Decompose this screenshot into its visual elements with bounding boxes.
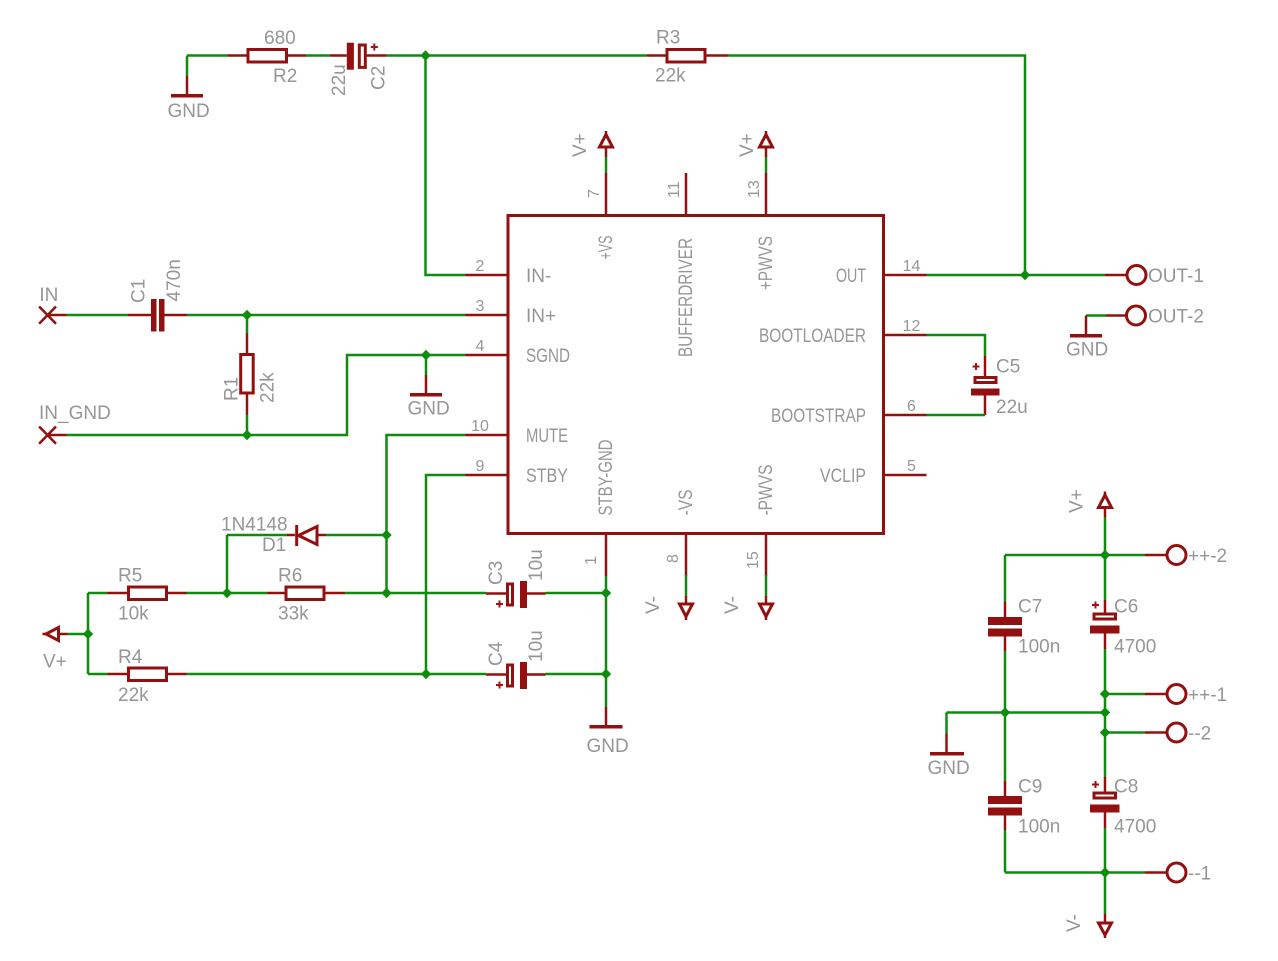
wire mid rail vertical C6-C8 xyxy=(1104,694,1107,733)
capacitor C8 4700 polarized xyxy=(1090,733,1156,873)
svg-text:D1: D1 xyxy=(262,535,286,556)
svg-text:6: 6 xyxy=(907,398,916,415)
supply V+ symbol above pin 7 xyxy=(570,131,613,173)
resistor R2 680 xyxy=(228,28,307,87)
junction pin1-C3 node xyxy=(601,588,611,598)
wire net N$1 top row from GND to R2 xyxy=(187,54,228,57)
svg-text:470n: 470n xyxy=(164,259,185,301)
wire BOOTLOADER pin 12 to C5 xyxy=(927,335,986,356)
wire C1 to pin 3 xyxy=(187,314,466,317)
svg-text:+VS: +VS xyxy=(596,236,617,260)
svg-text:10u: 10u xyxy=(526,549,547,581)
wire C2 to junction xyxy=(387,54,426,57)
svg-text:9: 9 xyxy=(476,458,485,475)
wire C4 to GND node xyxy=(546,673,607,676)
pin 9 STBY stub xyxy=(466,474,507,477)
svg-text:-PWVS: -PWVS xyxy=(756,465,777,516)
svg-text:11: 11 xyxy=(666,181,683,198)
ground GND3 (below C3/C4) xyxy=(587,593,629,757)
capacitor C5 22u polarized xyxy=(971,356,1028,418)
svg-text:1N4148: 1N4148 xyxy=(221,515,288,536)
svg-text:-VS: -VS xyxy=(676,490,697,516)
svg-text:4700: 4700 xyxy=(1114,817,1156,838)
svg-text:++-2: ++-2 xyxy=(1188,546,1227,567)
terminal --2 xyxy=(1105,723,1211,745)
pin 15 -PWVS stub xyxy=(765,535,768,576)
pin 5 VCLIP stub xyxy=(885,474,927,477)
svg-text:STBY-GND: STBY-GND xyxy=(596,440,617,516)
svg-text:22u: 22u xyxy=(329,64,350,96)
svg-text:GND: GND xyxy=(168,101,210,122)
svg-text:22k: 22k xyxy=(655,66,686,87)
junction ++-1 node xyxy=(1100,689,1110,699)
pin 3 IN+ stub xyxy=(466,314,507,317)
junction bottom rail xyxy=(1100,867,1110,877)
svg-text:GND: GND xyxy=(587,736,629,757)
wire junction right to R3 xyxy=(426,54,648,57)
resistor R5 10k xyxy=(88,566,187,625)
resistor R1 22k vertical xyxy=(222,315,279,435)
wire bottom rail xyxy=(1005,713,1145,873)
wire C3 to pin 1 node xyxy=(546,592,607,595)
svg-text:OUT-1: OUT-1 xyxy=(1148,266,1204,287)
junction R6 right at MUTE riser xyxy=(381,588,391,598)
capacitor C9 100n xyxy=(988,777,1060,873)
svg-text:100n: 100n xyxy=(1018,817,1060,838)
wire C5 to BOOTSTRAP pin 6 xyxy=(927,396,986,416)
svg-text:STBY: STBY xyxy=(526,466,568,487)
svg-text:--2: --2 xyxy=(1188,724,1211,745)
svg-text:15: 15 xyxy=(745,551,762,569)
capacitor C1 470n xyxy=(128,259,187,331)
resistor R3 22k xyxy=(647,28,729,87)
ground GND4 (OUT-2) xyxy=(1066,316,1108,361)
svg-text:V-: V- xyxy=(722,596,743,614)
svg-text:MUTE: MUTE xyxy=(526,426,568,447)
terminal ++-1 xyxy=(1105,685,1227,707)
svg-text:R1: R1 xyxy=(222,377,243,401)
svg-text:IN_GND: IN_GND xyxy=(39,403,111,424)
junction STBY riser at R4 row xyxy=(421,669,431,679)
svg-text:100n: 100n xyxy=(1018,637,1060,658)
junction R5-R6 node xyxy=(222,588,232,598)
ground GND1 (top left) xyxy=(168,56,210,123)
junction D1 right at MUTE riser xyxy=(381,530,391,540)
svg-text:C5: C5 xyxy=(996,357,1020,378)
ground GND5 (power) xyxy=(928,713,970,780)
svg-text:680: 680 xyxy=(264,28,296,49)
junction mid rail at C7 xyxy=(1000,707,1010,717)
svg-text:V-: V- xyxy=(643,596,664,614)
svg-text:22k: 22k xyxy=(258,372,279,403)
svg-text:BOOTLOADER: BOOTLOADER xyxy=(759,326,866,347)
supply V+ symbol above pin 13 xyxy=(737,131,773,173)
junction mid rail at C6 column xyxy=(1100,707,1110,717)
svg-text:4: 4 xyxy=(476,338,485,355)
svg-text:C6: C6 xyxy=(1114,597,1138,618)
svg-text:IN-: IN- xyxy=(526,266,551,287)
wire V+ riser R5 to R4 xyxy=(87,593,90,674)
svg-text:22k: 22k xyxy=(118,685,149,706)
pin 2 IN- stub xyxy=(466,274,507,277)
pin 10 MUTE stub xyxy=(466,434,507,437)
svg-text:--1: --1 xyxy=(1188,864,1211,885)
svg-text:V+: V+ xyxy=(43,652,67,673)
pin 14 OUT stub xyxy=(885,274,927,277)
capacitor C7 100n xyxy=(988,555,1060,713)
svg-text:R3: R3 xyxy=(656,28,680,49)
diode D1 1N4148 xyxy=(221,515,387,557)
svg-text:C4: C4 xyxy=(486,641,507,666)
svg-text:R4: R4 xyxy=(118,647,143,668)
terminal --1 xyxy=(1145,863,1211,885)
svg-text:R6: R6 xyxy=(278,566,302,587)
pin 11 BUFFERDRIVER stub xyxy=(685,173,688,214)
svg-text:GND: GND xyxy=(408,399,450,420)
svg-text:V+: V+ xyxy=(570,133,591,157)
svg-text:7: 7 xyxy=(586,189,603,198)
svg-text:C3: C3 xyxy=(486,561,507,585)
svg-text:10u: 10u xyxy=(526,630,547,662)
wire STBY riser xyxy=(426,475,466,674)
svg-text:22u: 22u xyxy=(996,397,1028,418)
terminal OUT-1 xyxy=(1105,266,1204,288)
svg-text:V-: V- xyxy=(1064,914,1085,932)
svg-text:OUT: OUT xyxy=(836,266,866,287)
svg-text:14: 14 xyxy=(903,258,921,275)
pin 1 STBY-GND stub xyxy=(605,535,608,576)
wire mid rail xyxy=(947,711,1106,714)
junction IN+ node at R1 top xyxy=(242,310,252,320)
IC U1 TDA7293 body xyxy=(508,216,884,534)
svg-text:R2: R2 xyxy=(273,66,297,87)
capacitor C4 10u polarized xyxy=(486,630,547,689)
junction OUT feedback node xyxy=(1020,270,1030,280)
supply V+ arrow left xyxy=(43,628,89,673)
terminal OUT-2 xyxy=(1086,306,1204,328)
svg-text:2: 2 xyxy=(476,258,485,275)
resistor R6 33k xyxy=(227,566,345,625)
capacitor C3 10u polarized xyxy=(486,549,547,608)
wire IN to C1 xyxy=(48,314,129,317)
svg-text:GND: GND xyxy=(928,758,970,779)
svg-text:GND: GND xyxy=(1066,340,1108,361)
svg-text:++-1: ++-1 xyxy=(1188,685,1227,706)
svg-text:C7: C7 xyxy=(1018,597,1042,618)
svg-text:R5: R5 xyxy=(118,566,142,587)
wire IN_GND row to SGND riser xyxy=(48,355,466,435)
node IN_GND cross xyxy=(39,427,56,444)
wire R2 to C2 xyxy=(306,54,330,57)
svg-text:+PWVS: +PWVS xyxy=(756,236,777,290)
svg-text:BUFFERDRIVER: BUFFERDRIVER xyxy=(676,238,697,357)
node IN cross xyxy=(39,307,56,324)
svg-text:VCLIP: VCLIP xyxy=(820,466,866,487)
svg-text:BOOTSTRAP: BOOTSTRAP xyxy=(771,406,866,427)
junction --2 node xyxy=(1100,727,1110,737)
svg-text:C8: C8 xyxy=(1114,777,1138,798)
svg-text:C9: C9 xyxy=(1018,777,1042,798)
wire MUTE to divider xyxy=(387,435,466,593)
wire V+ rail row xyxy=(1005,554,1145,557)
junction V+ rail node xyxy=(1100,550,1110,560)
svg-text:IN: IN xyxy=(39,285,58,306)
wire R4 to C4 xyxy=(187,673,487,676)
supply V- symbol below pin 15 xyxy=(722,575,773,620)
wire R6 to C3 xyxy=(345,592,486,595)
ground GND2 (below SGND) xyxy=(408,355,450,420)
wire junction down to pin 2 xyxy=(426,56,466,276)
svg-text:10k: 10k xyxy=(118,604,149,625)
svg-text:OUT-2: OUT-2 xyxy=(1148,307,1204,328)
svg-text:C1: C1 xyxy=(129,279,150,303)
svg-text:3: 3 xyxy=(476,298,485,315)
supply V- symbol power section xyxy=(1064,873,1112,939)
supply V- symbol below pin 8 xyxy=(643,575,693,620)
pin 7 +VS stub xyxy=(605,173,608,214)
svg-text:12: 12 xyxy=(903,318,921,335)
pin 8 -VS stub xyxy=(685,535,688,576)
svg-text:10: 10 xyxy=(471,418,489,435)
junction V+ node xyxy=(83,629,93,639)
junction R1 bottom on IN_GND row xyxy=(242,430,252,440)
svg-text:IN+: IN+ xyxy=(526,306,556,327)
junction SGND node xyxy=(421,350,431,360)
resistor R4 22k xyxy=(88,647,187,706)
svg-text:4700: 4700 xyxy=(1114,637,1156,658)
pin 13 +PWVS stub xyxy=(765,173,768,214)
svg-text:1: 1 xyxy=(583,556,600,565)
svg-text:13: 13 xyxy=(746,180,763,198)
capacitor C2 22u polarized xyxy=(329,43,390,96)
wire pin 1 down xyxy=(605,576,608,593)
svg-text:8: 8 xyxy=(665,554,682,563)
wire R3 to OUT node xyxy=(729,56,1026,276)
svg-text:SGND: SGND xyxy=(526,346,570,367)
pin 4 SGND stub xyxy=(466,354,507,357)
supply V+ symbol power section xyxy=(1067,489,1112,555)
capacitor C6 4700 polarized xyxy=(1090,555,1156,694)
pin 6 BOOTSTRAP stub xyxy=(885,414,927,417)
svg-text:33k: 33k xyxy=(278,604,309,625)
svg-text:V+: V+ xyxy=(737,133,758,157)
wire D1 left drop to R5 node xyxy=(226,535,229,593)
junction C4-GND node xyxy=(601,669,611,679)
junction at C2 output node xyxy=(420,50,430,60)
svg-text:5: 5 xyxy=(907,458,916,475)
wire R5 to R6 xyxy=(187,592,228,595)
svg-text:V+: V+ xyxy=(1067,489,1088,513)
svg-text:C2: C2 xyxy=(369,66,390,90)
wire OUT pin 14 to terminal xyxy=(927,274,1106,277)
pin 12 BOOTLOADER stub xyxy=(885,334,927,337)
terminal ++-2 xyxy=(1145,546,1227,568)
